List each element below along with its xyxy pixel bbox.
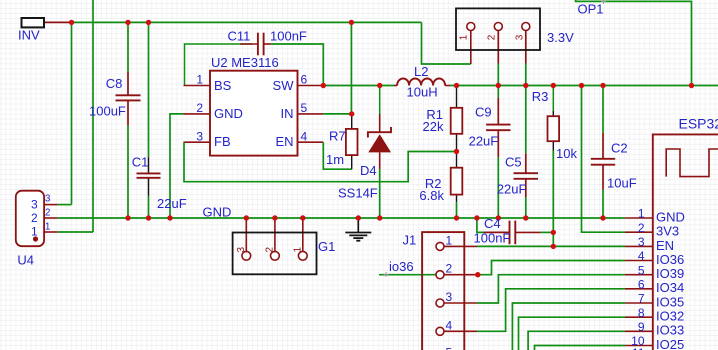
svg-text:U2 ME3116: U2 ME3116 [211, 55, 279, 70]
svg-text:C9: C9 [475, 105, 492, 120]
svg-text:OP1: OP1 [578, 2, 604, 17]
svg-text:R7: R7 [329, 129, 346, 144]
svg-text:C11: C11 [228, 29, 251, 44]
svg-text:3V3: 3V3 [656, 224, 679, 239]
svg-text:FB: FB [214, 134, 231, 149]
svg-text:8: 8 [638, 306, 645, 320]
svg-text:IO35: IO35 [656, 294, 684, 309]
svg-text:io36: io36 [389, 259, 414, 274]
svg-text:C5: C5 [505, 155, 522, 170]
svg-text:6: 6 [301, 73, 308, 87]
svg-text:IN: IN [281, 106, 294, 121]
svg-text:1: 1 [638, 207, 645, 221]
svg-text:GND: GND [203, 205, 232, 220]
svg-text:C1: C1 [132, 154, 149, 169]
svg-text:IO25: IO25 [656, 337, 684, 350]
svg-text:J1: J1 [403, 233, 417, 248]
svg-text:10uF: 10uF [607, 176, 637, 191]
svg-text:SS14F: SS14F [338, 186, 378, 201]
svg-text:1: 1 [458, 34, 469, 40]
svg-text:2: 2 [45, 208, 51, 219]
svg-text:3: 3 [638, 235, 645, 249]
svg-text:EN: EN [656, 238, 674, 253]
svg-text:11: 11 [632, 346, 645, 350]
svg-text:3: 3 [45, 194, 51, 205]
svg-text:R3: R3 [532, 89, 549, 104]
svg-text:1: 1 [196, 73, 203, 87]
svg-text:C2: C2 [611, 141, 628, 156]
svg-text:IO39: IO39 [656, 266, 684, 281]
svg-text:SW: SW [273, 78, 295, 93]
svg-text:1: 1 [31, 225, 38, 239]
svg-text:4: 4 [446, 318, 453, 332]
svg-text:2: 2 [196, 101, 203, 115]
svg-text:GND: GND [214, 106, 243, 121]
svg-text:1: 1 [446, 233, 453, 247]
svg-text:6.8k: 6.8k [419, 188, 444, 203]
svg-text:10k: 10k [556, 146, 577, 161]
svg-text:22uF: 22uF [469, 134, 499, 149]
svg-text:6: 6 [638, 278, 645, 292]
svg-text:5: 5 [638, 263, 645, 277]
svg-text:2: 2 [487, 34, 498, 40]
svg-text:7: 7 [638, 292, 645, 306]
svg-text:4: 4 [638, 249, 645, 263]
svg-text:3: 3 [446, 290, 453, 304]
svg-text:GND: GND [656, 209, 685, 224]
svg-text:BS: BS [214, 78, 232, 93]
svg-text:3: 3 [31, 198, 38, 212]
svg-text:2: 2 [638, 221, 645, 235]
svg-text:3: 3 [196, 129, 203, 143]
svg-text:G1: G1 [318, 239, 335, 254]
svg-text:100uF: 100uF [89, 104, 126, 119]
svg-text:L2: L2 [414, 64, 428, 79]
svg-text:22uF: 22uF [497, 182, 527, 197]
svg-text:U4: U4 [17, 253, 34, 268]
svg-text:1: 1 [293, 247, 304, 253]
svg-text:100nF: 100nF [474, 231, 511, 246]
svg-text:1: 1 [45, 222, 51, 233]
svg-text:D4: D4 [360, 163, 377, 178]
svg-text:10uH: 10uH [407, 85, 438, 100]
svg-text:2: 2 [265, 247, 276, 253]
svg-text:5: 5 [301, 101, 308, 115]
svg-text:IO33: IO33 [656, 323, 684, 338]
svg-text:2: 2 [31, 211, 38, 225]
svg-text:3: 3 [236, 247, 247, 253]
svg-text:ESP32: ESP32 [679, 115, 718, 131]
svg-text:IO36: IO36 [656, 252, 684, 267]
svg-text:22k: 22k [423, 119, 444, 134]
svg-text:C4: C4 [484, 216, 501, 231]
svg-text:3: 3 [515, 34, 526, 40]
svg-text:5: 5 [446, 346, 453, 350]
svg-text:100nF: 100nF [270, 29, 307, 44]
svg-text:9: 9 [638, 320, 645, 334]
svg-text:INV: INV [18, 27, 40, 42]
svg-text:EN: EN [275, 134, 293, 149]
svg-text:4: 4 [301, 129, 308, 143]
svg-text:C8: C8 [106, 76, 123, 91]
svg-text:IO32: IO32 [656, 309, 684, 324]
svg-text:22uF: 22uF [157, 196, 187, 211]
svg-text:3.3V: 3.3V [547, 30, 574, 45]
svg-text:1m: 1m [326, 152, 344, 167]
svg-text:2: 2 [446, 262, 453, 276]
svg-text:IO34: IO34 [656, 280, 684, 295]
